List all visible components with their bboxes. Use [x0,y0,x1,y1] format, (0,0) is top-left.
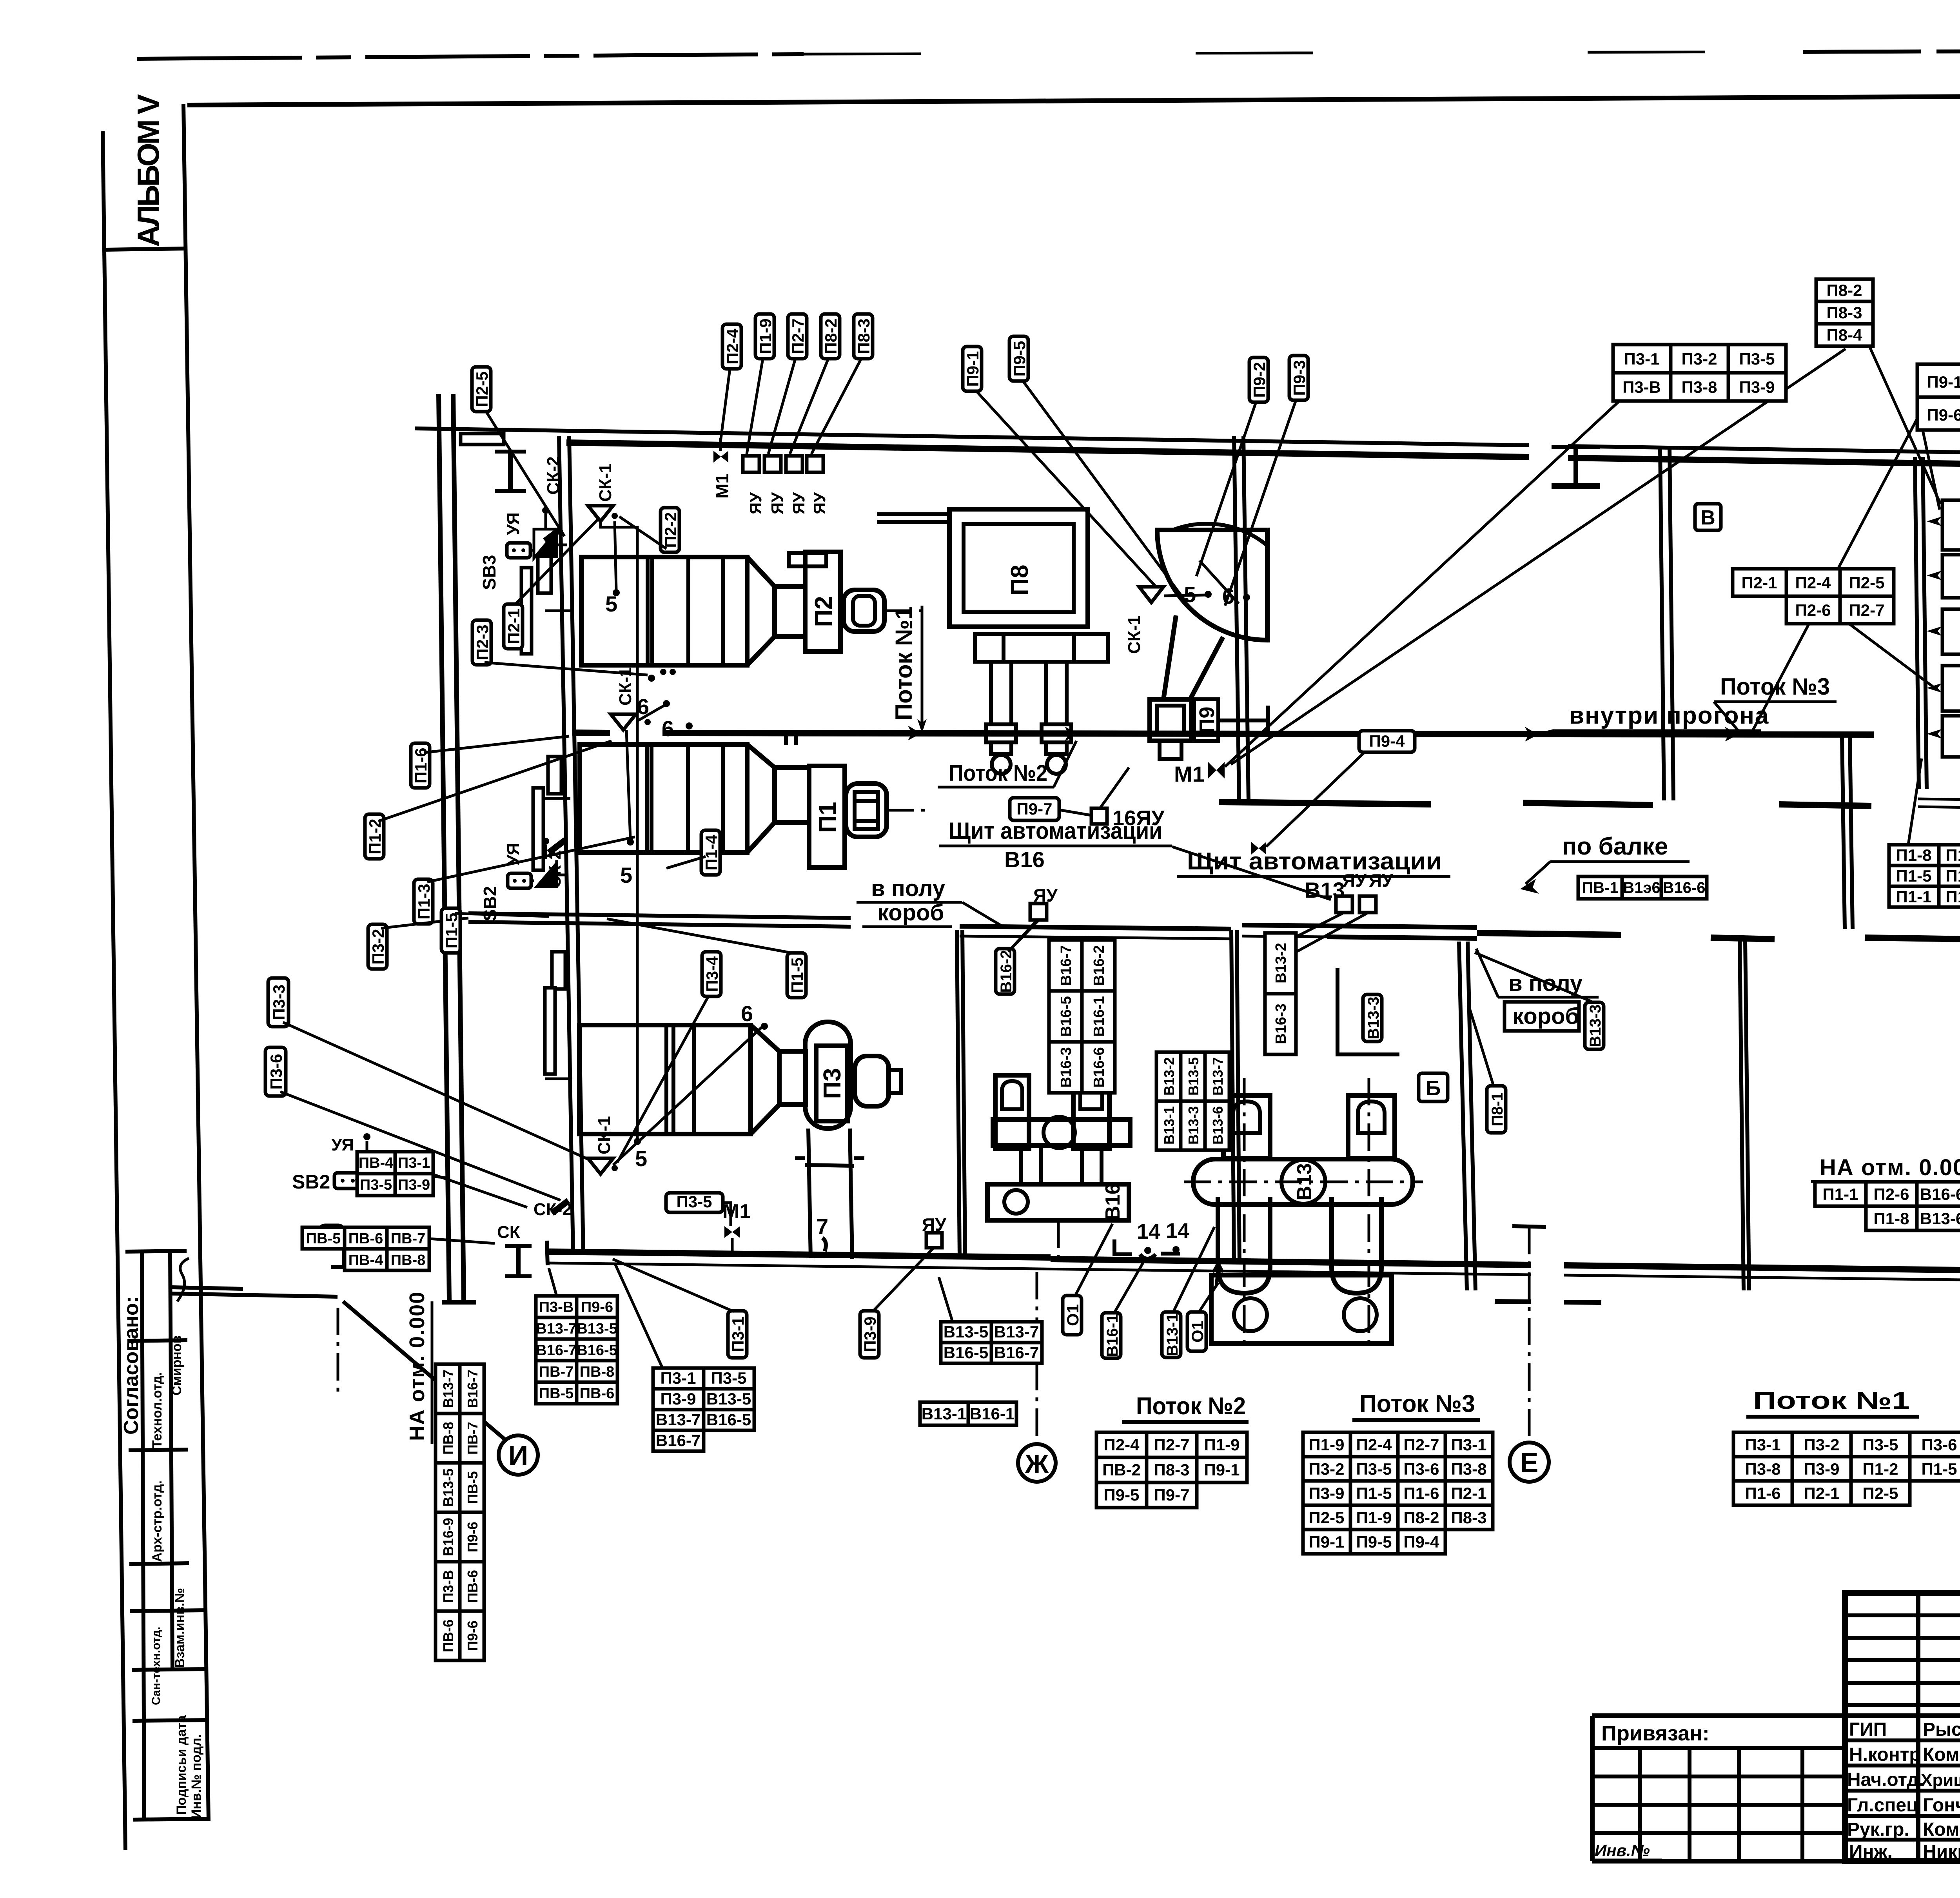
svg-text:П9-6: П9-6 [465,1620,481,1651]
machine P3 body [579,1025,751,1134]
top wall upper line [415,428,1529,445]
svg-text:П3-9: П3-9 [398,1177,430,1193]
svg-text:АЛЬБОМ V: АЛЬБОМ V [131,94,165,247]
svg-text:П9-5: П9-5 [1010,341,1029,377]
svg-text:П2: П2 [810,596,837,627]
door dashes L [1114,1239,1132,1254]
table PV top small [357,1152,433,1196]
label box P3-1 bottom [728,1311,747,1358]
automation panel P8 [1942,555,1960,598]
svg-text:П2-6: П2-6 [1874,1185,1909,1203]
leader P3-9 bottom [873,1248,933,1312]
svg-text:П2-5: П2-5 [1863,1484,1898,1502]
svg-text:П9-1: П9-1 [1204,1461,1240,1479]
svg-text:П2-6: П2-6 [1795,601,1831,619]
P8 foot left [986,724,1016,754]
machine P2 taper [747,557,775,665]
svg-text:М1: М1 [1174,762,1205,786]
svg-text:П2-1: П2-1 [1451,1484,1487,1502]
table P8 stack top right [1816,279,1873,346]
P8 foot roller left [992,755,1011,774]
conduit horizontal (double) [1918,799,1960,800]
hose SK-1 a drop line [601,521,637,1139]
svg-text:П3-5: П3-5 [1739,350,1775,368]
svg-text:в полу: в полу [871,876,945,901]
svg-text:В13-2: В13-2 [1273,943,1289,983]
rail clamp SK-2 mid [549,840,565,853]
long leader from P3 table to M1 [1225,401,1619,767]
stamp column lines [1916,1593,1920,1861]
svg-text:П9: П9 [1195,707,1219,734]
V13 base plate [1211,1275,1392,1343]
svg-text:В13-7: В13-7 [536,1321,577,1337]
svg-text:Ж: Ж [1025,1449,1049,1478]
sidebar outer vertical [183,104,209,1821]
leader P8-1 [1468,1003,1494,1086]
label box P2-5 [472,367,491,412]
P8 foot right [1042,724,1071,754]
automation panel P1 [1942,716,1960,757]
svg-text:Поток №2: Поток №2 [1136,1393,1246,1420]
svg-text:Технол.отд.: Технол.отд. [150,1372,165,1448]
svg-text:В13-2: В13-2 [1161,1057,1177,1096]
B room right wall (double) [1459,942,1467,1290]
machine P1 label [814,802,841,833]
svg-text:П3-9: П3-9 [1804,1460,1840,1478]
machine P3 label box [816,1046,848,1121]
svg-text:П3-5: П3-5 [711,1369,747,1387]
svg-text:П1-5: П1-5 [1896,867,1932,885]
machine P1 neck [775,768,809,822]
svg-text:П8-3: П8-3 [1154,1461,1190,1479]
PANELS RIGHT [1927,500,1960,784]
leader O1 a [1075,1224,1112,1296]
leader P3-6 [280,1092,561,1200]
svg-text:И: И [508,1440,528,1471]
valve M1 top [713,451,728,463]
svg-text:В16-1: В16-1 [1091,996,1107,1037]
hose conn SK-1 d [1139,587,1163,602]
panels wall (double) [1915,457,1919,789]
svg-text:П3-2: П3-2 [1804,1435,1840,1454]
svg-text:П3-В: П3-В [539,1299,574,1316]
svg-text:SВ2: SВ2 [292,1171,330,1193]
svg-text:В13-5: В13-5 [440,1468,456,1507]
svg-text:П2-7: П2-7 [789,319,807,354]
svg-text:ПВ-7: ПВ-7 [391,1230,426,1247]
svg-text:6: 6 [741,1001,753,1026]
mini table PV-1 V16 V16-6 [1578,876,1707,899]
P9 scroll [1157,530,1267,640]
table V13 V16 small [941,1322,1042,1363]
svg-text:ПВ-1: ПВ-1 [1582,879,1618,896]
V13 cylinder bar [1193,1159,1413,1205]
svg-text:В16-7: В16-7 [536,1342,577,1359]
lamp UYa top [534,529,558,558]
svg-text:П3-3: П3-3 [270,985,288,1020]
table near I circle [536,1296,617,1404]
svg-text:5: 5 [635,1146,647,1171]
svg-text:П8-3: П8-3 [855,319,873,354]
svg-text:П9-6: П9-6 [465,1522,481,1552]
label box P9-1 [963,347,982,391]
svg-text:В13-5: В13-5 [944,1323,988,1341]
stamp name row lines [1592,1713,1960,1718]
V16 axis down [1057,1220,1060,1256]
leader P3-1 bottom [613,1259,734,1312]
svg-text:14: 14 [1137,1220,1160,1243]
svg-text:ПВ-4: ПВ-4 [348,1252,383,1268]
svg-text:SВ2: SВ2 [480,886,500,921]
MACHINES [543,509,1423,1348]
svg-text:П1-4: П1-4 [702,835,720,871]
svg-text:П9-7: П9-7 [1017,800,1053,818]
P8 frame band [975,634,1108,662]
label box V13-3 a [1363,994,1382,1042]
leader P8-3 [811,359,861,454]
P8 leg right [1046,662,1067,724]
svg-text:СК: СК [497,1223,520,1242]
svg-text:В16-6: В16-6 [1091,1047,1107,1088]
svg-text:М1: М1 [712,474,732,499]
label box P2-2 [661,508,680,552]
svg-text:SВ3: SВ3 [479,555,499,590]
svg-text:П3-6: П3-6 [267,1054,285,1090]
svg-text:В13-6: В13-6 [1920,1209,1960,1228]
svg-text:П3-8: П3-8 [1682,378,1717,396]
label box P1-2 [365,814,384,859]
P3-5 jog line [723,1203,731,1226]
svg-text:П8: П8 [1006,564,1033,595]
svg-text:П8-3: П8-3 [1451,1508,1487,1527]
table V13-1 V16-1 [920,1402,1016,1425]
leader P8-2 [790,359,828,454]
corridor wall arrow potok n3 [1725,727,1738,742]
partition footing shoe [1219,802,1431,804]
long leader P9 table to wall [1753,416,1919,730]
svg-text:П9-4: П9-4 [1404,1533,1440,1551]
svg-text:ЯУ: ЯУ [1369,870,1394,891]
svg-text:ПВ-8: ПВ-8 [440,1422,456,1455]
leader V13-3 b [1475,953,1592,1002]
sidebar top divider [105,249,185,250]
svg-text:Поток №1: Поток №1 [1753,1387,1910,1414]
svg-text:Б: Б [1426,1076,1441,1100]
rail clamp SK-2 top [545,528,561,541]
leader P9-5 [1022,380,1186,602]
V16-V13 room divider wall double [1231,930,1234,1263]
svg-text:Поток №2: Поток №2 [949,760,1047,786]
svg-text:Поток №3: Поток №3 [1359,1390,1475,1417]
svg-text:П2-4: П2-4 [723,328,742,365]
V13 base circle left [1234,1298,1267,1331]
sidebar signature squiggle [177,1258,189,1301]
table P9 top right [1917,364,1960,430]
svg-text:Гл.спец: Гл.спец [1847,1795,1918,1816]
svg-text:П2-4: П2-4 [1356,1435,1392,1454]
svg-text:Подписьи дата: Подписьи дата [174,1715,189,1815]
svg-text:В16-5: В16-5 [944,1343,988,1362]
svg-text:В16-3: В16-3 [1273,1003,1289,1044]
label box P2-7 [788,314,807,359]
automation panel P9 [1942,500,1960,550]
svg-text:ПВ-6: ПВ-6 [440,1619,456,1652]
svg-text:П3-8: П3-8 [1745,1460,1781,1478]
corridor wall [572,733,610,733]
svg-text:Согласовано:: Согласовано: [120,1296,143,1435]
lamp UYa bottom [355,1154,378,1180]
svg-text:В13-3: В13-3 [1185,1106,1201,1145]
table na otm right [1815,1182,1960,1230]
svg-text:УЯ: УЯ [331,1135,354,1154]
machine P2 body [581,557,747,665]
svg-text:В16-6: В16-6 [1663,879,1706,896]
label box P3-4 [702,952,721,996]
svg-text:ЯУ: ЯУ [789,492,808,514]
svg-text:П1-5: П1-5 [1356,1484,1392,1502]
svg-text:П9-1: П9-1 [964,351,982,387]
outside landing line [172,1294,338,1297]
svg-text:В1э6: В1э6 [1623,879,1660,896]
table P3 bottom left [653,1368,754,1451]
svg-text:В16-1: В16-1 [1104,1314,1121,1357]
PLAN WALLS [172,394,1960,1499]
leader P9-4 [1266,753,1364,847]
section circle I leader [343,1301,505,1439]
svg-text:В16-7: В16-7 [1058,945,1074,986]
machine P1 body [580,744,747,853]
svg-text:П3-9: П3-9 [661,1390,696,1408]
label box V13-3 b [1585,1002,1604,1049]
P8 leg left [991,662,1011,724]
svg-text:П2-4: П2-4 [1104,1435,1140,1454]
label box P3-5 bottom [666,1193,723,1212]
leader P3-2 [381,918,468,928]
corridor wall arrow potok n2 [1065,726,1078,741]
bottom wall thick line [547,1252,1051,1257]
section circle E [1510,1443,1549,1482]
crane rail left [439,394,449,1301]
svg-text:по балке: по балке [1562,833,1668,860]
label box P9-5 [1009,336,1029,381]
P8 unit outer box [949,509,1088,627]
svg-text:П3-9: П3-9 [861,1317,879,1352]
svg-text:П3-1: П3-1 [398,1155,430,1171]
LABELS AND TABLES [265,314,1940,1358]
svg-text:В16-6: В16-6 [1920,1185,1960,1203]
svg-text:П3-5: П3-5 [360,1177,392,1193]
svg-text:П1-9: П1-9 [1946,846,1960,864]
svg-text:В13-5: В13-5 [706,1390,751,1408]
hose conn SK-1 b [611,714,636,730]
svg-text:Никитина: Никитина [1923,1842,1960,1862]
V16 base [987,1184,1129,1220]
svg-text:П3-5: П3-5 [677,1192,712,1211]
label box P2-3 [472,620,492,665]
V16 base label [1102,1183,1124,1220]
stamp upper row lines [1845,1613,1960,1617]
label box P2-1 [504,604,523,649]
svg-text:Инв.№ подл.: Инв.№ подл. [189,1734,204,1819]
svg-text:П1-2: П1-2 [1946,887,1960,906]
svg-text:В13-7: В13-7 [656,1410,701,1429]
svg-text:П3-6: П3-6 [1404,1460,1439,1478]
leader P3-4 [617,996,709,1162]
svg-text:Щит автоматизации: Щит автоматизации [1187,848,1442,875]
V16 room left wall double [957,930,960,1259]
V13 base circle right [1344,1298,1377,1331]
svg-text:Сан-техн.отд.: Сан-техн.отд. [150,1627,163,1705]
leader O1 b [1199,1283,1218,1312]
machine P3 post stadium [805,1022,851,1129]
svg-text:О1: О1 [1063,1304,1082,1326]
svg-text:П1-2: П1-2 [1863,1460,1898,1478]
room letter V [1695,504,1721,530]
svg-text:П3-2: П3-2 [1309,1460,1345,1478]
svg-text:П3-2: П3-2 [1682,350,1717,368]
top wall lower line [566,443,1529,457]
svg-text:Гончарев: Гончарев [1923,1795,1960,1816]
label box P8-1 [1487,1086,1506,1133]
junction boxes YaU row [743,456,759,472]
svg-text:В13-1: В13-1 [922,1404,966,1423]
machine P3 nozzle [855,1056,901,1106]
svg-text:Взам.инв.№: Взам.инв.№ [172,1588,187,1668]
svg-text:ЯУ: ЯУ [1342,870,1367,891]
leader P2-3 [485,662,648,675]
svg-text:ЯУ: ЯУ [768,492,786,514]
leader V13-1 bottom [1173,1227,1214,1312]
svg-text:ЯУ: ЯУ [746,492,765,514]
label box O1 a [1063,1296,1082,1335]
svg-text:СК-1: СК-1 [616,667,635,706]
svg-text:П2-7: П2-7 [1849,601,1885,619]
privyazan block [1590,1716,1595,1861]
svg-text:П9-6: П9-6 [1927,406,1960,424]
leader P9-1 [976,390,1156,587]
svg-text:ПВ-6: ПВ-6 [348,1230,383,1247]
V13 top post left [1223,1096,1270,1158]
machine P1 axis [543,797,580,800]
svg-text:П1-9: П1-9 [756,319,775,354]
sheet top cut edge (dashed) [137,54,804,59]
bottom wall left end tick [547,1241,548,1265]
leader P1 table to panel [1908,758,1922,845]
rotated stack V13-2 V16-3 [1265,933,1296,1054]
frame top border [187,93,1960,105]
svg-text:В13-1: В13-1 [1161,1106,1177,1145]
table P3 top [1613,345,1786,401]
svg-text:П1-3: П1-3 [415,884,433,920]
svg-text:В16-5: В16-5 [577,1342,617,1359]
P8 unit inner box [964,524,1074,612]
svg-text:Хрищанович: Хрищанович [1921,1771,1960,1790]
svg-text:В16-7: В16-7 [994,1343,1039,1362]
svg-text:Щит автоматизации: Щит автоматизации [949,818,1162,844]
svg-text:В16-9: В16-9 [440,1518,456,1556]
svg-text:СК-1: СК-1 [595,1116,614,1154]
label box P3-2 [368,924,387,969]
svg-text:П9-1: П9-1 [1309,1533,1345,1551]
leader P1-4 [666,856,706,868]
svg-text:Комова: Комова [1923,1744,1960,1765]
label box V16-1 bottom [1102,1313,1121,1358]
leader P2-1 [515,518,599,604]
svg-text:В13-5: В13-5 [577,1321,617,1337]
svg-text:В16-2: В16-2 [998,950,1015,993]
leader P2-2 [619,517,666,549]
svg-text:ПВ-4: ПВ-4 [359,1155,394,1171]
corridor wall arrow potok n1 [908,726,921,740]
label box P9-2 [1249,357,1269,402]
svg-text:ПВ-6: ПВ-6 [465,1570,481,1603]
svg-text:Рыскин: Рыскин [1923,1719,1960,1740]
P9 lower box [1150,699,1191,741]
rail clamp SK-2 bottom [552,1201,568,1213]
machine P1 nozzle [846,784,930,837]
svg-text:В: В [1700,506,1715,529]
svg-text:В13-7: В13-7 [994,1323,1039,1341]
leader P1-9 [747,359,763,454]
machine P2 neck [775,586,805,637]
svg-text:П2-1: П2-1 [1804,1484,1840,1502]
svg-text:Рук.гр.: Рук.гр. [1847,1819,1909,1840]
section E I-cap [1512,1226,1546,1227]
center column I with cap [1711,938,1775,939]
svg-text:ПВ-7: ПВ-7 [465,1422,481,1455]
svg-text:П1-9: П1-9 [1204,1435,1240,1454]
svg-text:Привязан:: Привязан: [1601,1722,1710,1745]
label box V13-1 bottom [1162,1312,1181,1357]
label box P1-9 [755,314,775,359]
V16 bar circle [1044,1117,1075,1148]
svg-text:П2-5: П2-5 [473,372,491,407]
P9 cone [1163,615,1223,699]
bottom wall lower line [547,1263,1531,1275]
V13 cylinder left [1218,1197,1270,1293]
machine P2 flange [805,552,840,651]
svg-text:П8-3: П8-3 [1827,303,1862,322]
svg-text:П1-9: П1-9 [1309,1435,1345,1454]
svg-text:5: 5 [620,863,632,887]
svg-text:П3-1: П3-1 [661,1369,696,1387]
crane rail bottom cap [442,1300,476,1305]
svg-text:Поток №1: Поток №1 [891,607,917,720]
svg-text:П1-5: П1-5 [788,958,806,993]
svg-text:П9-5: П9-5 [1104,1486,1140,1504]
svg-text:П3-1: П3-1 [1745,1435,1781,1454]
svg-text:П1-8: П1-8 [1896,846,1932,864]
wall below corridor x4706 (double) [1842,735,1845,929]
svg-text:ПВ-8: ПВ-8 [580,1364,615,1380]
svg-text:П3-8: П3-8 [1451,1460,1487,1478]
V13 circle label [1281,1160,1325,1204]
leader P1-3 [427,837,635,882]
svg-text:Комола: Комола [1923,1819,1960,1840]
footing shoe 3 [1779,804,1871,806]
svg-text:СК-1: СК-1 [596,463,615,502]
svg-text:В13-6: В13-6 [1210,1106,1226,1145]
svg-text:П9-6: П9-6 [581,1299,613,1316]
label box P3-6 [265,1047,286,1096]
leader P1-5 left [455,913,549,916]
table potok N3 [1303,1432,1493,1554]
leader P1-6 [424,736,569,753]
pushbutton SB2 mid [508,873,531,888]
frame bottom border [1592,1859,1960,1864]
svg-text:ПВ-7: ПВ-7 [539,1364,574,1380]
svg-text:П9-7: П9-7 [1154,1486,1190,1504]
